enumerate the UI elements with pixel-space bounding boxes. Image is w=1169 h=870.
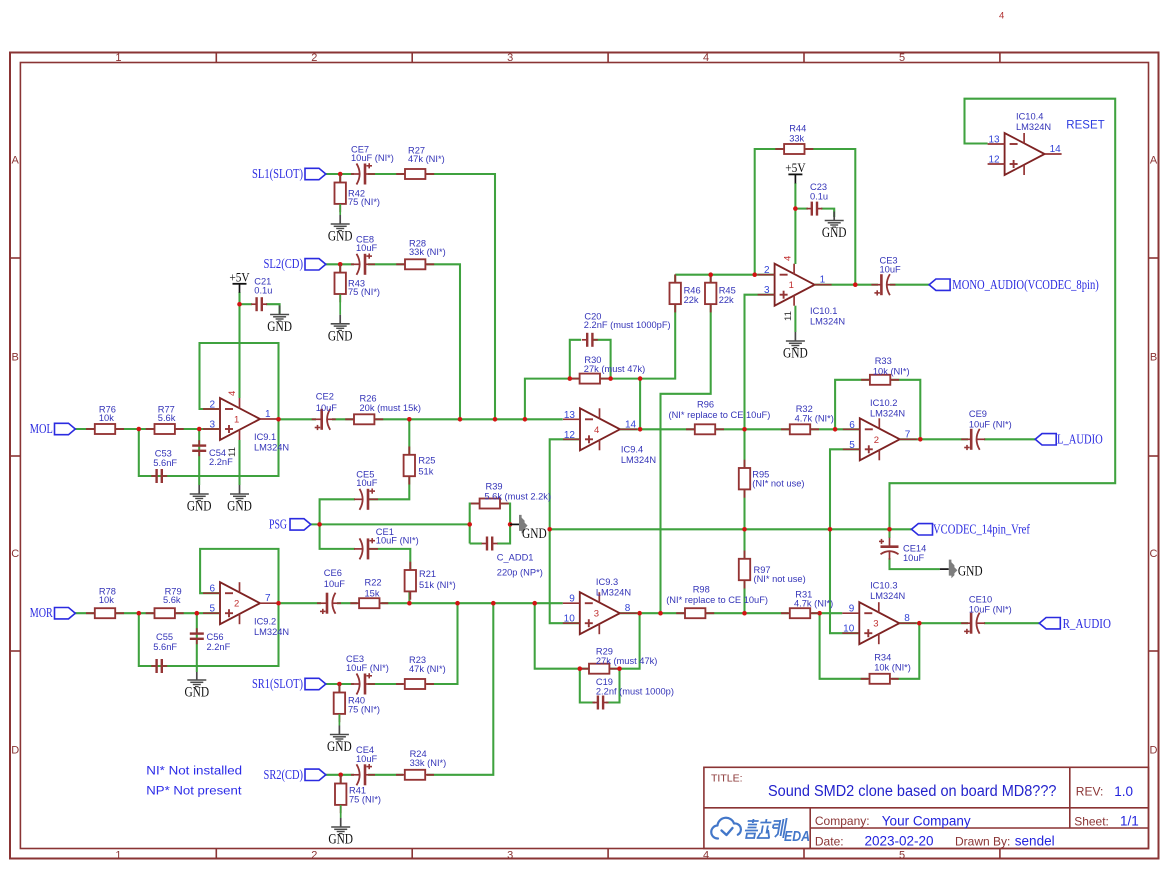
wire R39 C_ADD1 loop [470,504,479,544]
wire R46 branch [674,275,676,283]
resistor R24 [396,774,405,776]
svg-text:3: 3 [594,609,599,620]
wire L_AUDIO row [900,438,968,440]
svg-text:1: 1 [265,409,271,420]
net flag R_AUDIO [1039,618,1060,629]
svg-text:1: 1 [115,52,121,64]
wire MOL input [75,428,94,430]
wire CE14 branch [888,529,890,538]
svg-text:10uF (NI*): 10uF (NI*) [346,663,389,673]
junction SL2 tap [458,417,463,422]
capacitor C55 [151,665,156,667]
svg-text:R21: R21 [419,569,436,579]
ground below R42 [339,204,341,215]
svg-text:9: 9 [849,604,855,615]
svg-text:+5V: +5V [229,269,250,284]
capacitor CE5 [360,489,363,510]
svg-text:11: 11 [783,311,794,321]
svg-text:REV:: REV: [1076,785,1104,799]
ground IC10.1 pin11 [794,332,796,341]
svg-text:C55: C55 [156,632,173,642]
junction IC9.4 loop tap [523,417,528,422]
net flag VCODEC_14pin_Vref [912,524,933,535]
junction R31 right [817,611,822,616]
svg-text:5.6k: 5.6k [158,413,176,423]
svg-text:22k: 22k [684,295,699,305]
resistor R39 [471,503,480,505]
svg-text:1: 1 [115,849,121,861]
svg-text:22k: 22k [719,295,734,305]
svg-text:LM324N: LM324N [870,409,905,419]
svg-text:(NI* replace to CE 10uF): (NI* replace to CE 10uF) [666,595,768,605]
wire R96 R32 row [716,428,790,430]
junction IC10.2 output [918,437,923,442]
wire CE5 row [320,499,355,549]
svg-text:CE14: CE14 [903,543,926,553]
svg-text:2: 2 [234,599,239,610]
svg-text:MOL: MOL [30,421,53,436]
junction R96 R95 tap [742,427,747,432]
svg-text:33k: 33k [789,133,804,143]
svg-text:10uF: 10uF [903,553,925,563]
svg-text:GND: GND [184,685,209,701]
resistor R22 [350,602,359,604]
wire C23 branch [795,208,808,210]
resistor R44 [775,148,784,150]
svg-text:4: 4 [703,849,709,861]
wire IC9.4 output [620,428,695,430]
junction R30 output tap [638,376,643,381]
resistor R46 [674,274,676,282]
wire R_AUDIO row [899,622,968,624]
junction R30 right [608,376,613,381]
wire SL2 net [326,263,355,265]
junction R45 branch tap [658,611,663,616]
junction R30 left [568,376,573,381]
wire IC10.1 pin11 ground [794,306,796,332]
resistor R33 [861,379,870,381]
junction +5V C23 [793,206,798,211]
svg-text:12: 12 [988,155,1000,166]
wire C21 branch [240,303,253,305]
wire IC9.2 feedback [200,549,278,603]
svg-text:5: 5 [899,849,905,861]
svg-text:R33: R33 [875,356,892,366]
capacitor C54 [198,440,200,445]
wire C53 feedback loop [139,419,279,476]
svg-text:LM324N: LM324N [254,443,289,453]
svg-text:10uF (NI*): 10uF (NI*) [969,420,1012,430]
wire RESET net loop [890,99,1116,530]
svg-text:Sheet:: Sheet: [1074,814,1109,828]
svg-text:7: 7 [905,429,911,440]
svg-text:R96: R96 [697,400,714,410]
svg-text:C23: C23 [810,182,827,192]
wire R41 to ground [340,775,342,785]
svg-text:IC10.2: IC10.2 [870,398,897,408]
junction R45 top [708,272,713,277]
svg-text:1.0: 1.0 [1114,784,1133,799]
wire IC10.1 pin3 column [745,295,775,469]
svg-text:2: 2 [764,265,770,276]
svg-text:10uF: 10uF [356,478,378,488]
wire R40 to ground [338,684,340,694]
svg-text:VCODEC_14pin_Vref: VCODEC_14pin_Vref [933,521,1030,536]
wire SR1 net [326,683,355,685]
svg-text:LM324N: LM324N [870,591,905,601]
resistor R40 [338,684,340,692]
svg-text:5.6k: 5.6k [163,595,181,605]
wire C55 feedback loop [139,603,279,666]
svg-text:2: 2 [874,435,879,446]
wire IC9.4 loop to R30 row [525,379,579,420]
svg-text:A: A [1150,155,1158,167]
wire IC9.1 pin11 to ground [238,440,240,485]
wire C20 branch [570,340,581,379]
svg-text:8: 8 [625,603,631,614]
svg-text:R_AUDIO: R_AUDIO [1063,616,1112,631]
net flag L_AUDIO [1035,434,1056,445]
svg-text:10uF (NI*): 10uF (NI*) [969,605,1012,615]
wire IC9.1 output row [279,418,317,420]
junction IC10.3 output [917,621,922,626]
junction SR1 [337,682,342,687]
svg-text:2.2nF (must 1000pF): 2.2nF (must 1000pF) [584,320,671,330]
junction IC9.1 output [276,417,281,422]
svg-text:TITLE:: TITLE: [711,773,743,785]
junction IC9.4 output [638,427,643,432]
junction PSG [317,522,322,527]
wire Vref row [550,528,912,530]
svg-text:LM324N: LM324N [621,455,656,465]
svg-text:GND: GND [327,739,352,755]
svg-text:R46: R46 [684,286,701,296]
net flag MONO_AUDIO [929,279,950,290]
svg-text:3: 3 [764,285,770,296]
svg-text:MOR: MOR [30,605,53,620]
svg-text:RESET: RESET [1066,119,1104,131]
junction R29 left [578,666,583,671]
svg-text:5.6nF: 5.6nF [153,458,177,468]
svg-text:NI* Not installed: NI* Not installed [146,766,242,778]
svg-text:75 (NI*): 75 (NI*) [349,794,381,804]
svg-text:+5V: +5V [785,160,806,175]
svg-text:MONO_AUDIO(VCODEC_8pin): MONO_AUDIO(VCODEC_8pin) [952,277,1099,292]
wire R43 to ground [339,264,341,274]
resistor R41 [340,775,342,783]
ground below C23 [833,209,835,212]
junction Vref head [547,527,552,532]
svg-text:D: D [11,745,19,757]
svg-text:GND: GND [822,225,847,241]
capacitor CE6 [332,593,335,614]
capacitor CE14 [881,545,899,548]
svg-text:5: 5 [209,604,215,615]
svg-text:1: 1 [234,415,239,426]
wire C56 to ground [196,613,198,672]
capacitor C20 [582,339,587,341]
svg-text:220p (NP*): 220p (NP*) [497,568,543,578]
op-amp IC9.4 [580,408,620,450]
svg-text:A: A [12,155,20,167]
ground below C54 [198,485,200,494]
svg-text:R25: R25 [418,456,435,466]
svg-text:10uF: 10uF [880,265,902,275]
svg-text:GND: GND [328,328,353,344]
svg-text:13: 13 [564,410,576,421]
svg-text:GND: GND [267,319,292,335]
svg-text:10uF: 10uF [356,243,378,253]
ground below C56 [196,672,198,680]
resistor R42 [339,174,341,182]
svg-text:IC9.2: IC9.2 [254,617,276,627]
svg-text:R32: R32 [796,404,813,414]
svg-text:10uF (NI*): 10uF (NI*) [351,153,394,163]
wire SL1 net [326,173,355,175]
svg-text:Drawn By:: Drawn By: [955,834,1010,848]
junction node B1 [197,427,202,432]
svg-text:Sound SMD2 clone based on boar: Sound SMD2 clone based on board MD8??? [768,783,1057,800]
resistor R78 [86,612,95,614]
svg-text:4.7k (NI*): 4.7k (NI*) [794,598,833,608]
wire IC9.3 pin10 Vref branch [550,439,581,623]
junction SR2 tap [491,601,496,606]
svg-text:R26: R26 [360,394,377,404]
capacitor CE3 input [357,674,360,695]
wire R42 to ground [339,174,341,184]
junction +5V C21 [237,302,242,307]
capacitor C56 [196,628,198,633]
junction R25 tap [407,417,412,422]
op-amp IC10.3 [859,602,899,644]
resistor R95 [744,460,746,468]
svg-text:75 (NI*): 75 (NI*) [348,704,380,714]
svg-text:5.6nF: 5.6nF [153,642,177,652]
svg-text:IC10.3: IC10.3 [870,581,897,591]
svg-text:4: 4 [999,11,1004,22]
junction SR1 tap [455,601,460,606]
svg-text:R34: R34 [874,652,891,662]
capacitor CE3 output [887,274,890,295]
wire IC9.3 feedback R29 [535,603,589,669]
resistor R28 [396,263,405,265]
wire R33 feedback [835,380,869,429]
svg-text:10uF: 10uF [324,579,346,589]
svg-text:2023-02-20: 2023-02-20 [865,834,934,849]
svg-text:LM324N: LM324N [810,317,845,327]
svg-text:(NI* not use): (NI* not use) [754,574,806,584]
svg-text:27k (must 47k): 27k (must 47k) [584,364,645,374]
svg-text:47k (NI*): 47k (NI*) [409,664,446,674]
svg-text:(NI* replace to CE 10uF): (NI* replace to CE 10uF) [669,410,771,420]
svg-text:27k (must 47k): 27k (must 47k) [596,656,657,666]
svg-text:4: 4 [594,425,599,436]
wire IC9.1 feedback [200,343,279,419]
svg-text:33k (NI*): 33k (NI*) [409,247,446,257]
junction Vref R95 [742,527,747,532]
svg-text:8: 8 [904,613,910,624]
junction Vref pin5 [828,527,833,532]
capacitor C19 [593,702,598,704]
resistor R29 [580,668,589,670]
svg-text:10: 10 [843,624,855,635]
junction R21 tap [407,601,412,606]
svg-text:12: 12 [564,430,576,441]
svg-text:3: 3 [209,420,215,431]
resistor R43 [339,264,341,272]
svg-text:GND: GND [328,832,353,848]
svg-text:4.7k (NI*): 4.7k (NI*) [795,414,834,424]
svg-text:4: 4 [703,52,709,64]
svg-text:IC10.4: IC10.4 [1016,112,1043,122]
svg-text:10k (NI*): 10k (NI*) [874,662,911,672]
junction GND tap [508,522,513,527]
junction R39 left [467,522,472,527]
svg-text:9: 9 [569,594,575,605]
wire IC9.3 output row [620,612,685,614]
svg-text:14: 14 [1050,144,1062,155]
resistor R32 [781,428,790,430]
ground below R43 [339,294,341,314]
capacitor CE2 [327,409,330,430]
svg-text:(NI* not use): (NI* not use) [752,479,804,489]
svg-text:14: 14 [625,419,637,430]
svg-text:0.1u: 0.1u [254,285,272,295]
svg-text:5: 5 [849,440,855,451]
ground gray at C_ADD1 [510,523,519,525]
resistor R79 [146,612,155,614]
junction SR2 [338,773,343,778]
capacitor C21 [251,303,256,305]
capacitor C53 [151,475,156,477]
svg-text:2: 2 [311,849,317,861]
ground below C21 [279,304,281,305]
svg-text:PSG: PSG [269,516,287,531]
resistor R25 [408,447,410,455]
svg-text:3: 3 [873,619,878,630]
ground below R40 [338,714,340,726]
ground gray at CE14 [940,568,949,570]
resistor R98 [676,612,685,614]
svg-text:CE6: CE6 [324,568,342,578]
svg-text:GND: GND [783,346,808,362]
svg-text:2: 2 [311,52,317,64]
capacitor CE4 [357,764,360,785]
svg-text:47k (NI*): 47k (NI*) [408,154,445,164]
svg-text:10uF (NI*): 10uF (NI*) [376,536,419,546]
svg-text:6: 6 [849,420,855,431]
svg-text:C: C [11,548,19,560]
svg-text:CE9: CE9 [969,409,987,419]
junction IC9.3 output [637,611,642,616]
svg-text:LM324N: LM324N [596,588,631,598]
junction IC9.2 output [276,601,281,606]
resistor R34 [861,678,870,680]
junction node A2 [137,611,142,616]
resistor R76 [86,428,95,430]
wire C54 to ground [198,429,200,485]
svg-text:1: 1 [820,275,826,286]
wire SR2 net [326,774,355,776]
wire PSG row [311,523,470,525]
op-amp IC9.2 [220,582,260,624]
svg-text:C53: C53 [155,449,172,459]
capacitor CE8 [357,254,360,275]
resistor R77 [146,428,155,430]
svg-text:10k: 10k [99,595,114,605]
resistor R23 [396,683,405,685]
junction IC10.1 output [853,282,858,287]
resistor R45 [710,274,712,282]
wire IC9.2 output row [279,602,322,604]
svg-text:4: 4 [227,391,238,396]
op-amp IC10.1 [775,264,815,306]
svg-text:7: 7 [265,593,271,604]
resistor R97 [744,551,746,559]
wire +5V to IC10.1 [794,183,796,264]
svg-text:10: 10 [564,614,576,625]
op-amp IC9.1 [220,398,260,440]
svg-text:IC9.3: IC9.3 [596,577,618,587]
svg-text:R29: R29 [596,647,613,657]
junction node B2 [195,611,200,616]
capacitor CE10 [976,613,979,634]
svg-text:11: 11 [227,447,238,457]
svg-text:D: D [1150,745,1158,757]
svg-text:2.2nF: 2.2nF [209,457,233,467]
resistor R27 [396,173,405,175]
junction R29 tap [532,601,537,606]
svg-text:0.1u: 0.1u [810,191,828,201]
capacitor C23 [806,208,811,210]
svg-text:IC9.1: IC9.1 [254,432,276,442]
svg-text:SR1(SLOT): SR1(SLOT) [252,676,303,691]
svg-text:5: 5 [899,52,905,64]
svg-text:R22: R22 [365,578,382,588]
svg-text:EDA: EDA [784,828,810,845]
junction SL1 [338,172,343,177]
JLC EDA logo [711,818,741,839]
svg-text:B: B [1150,352,1157,364]
svg-text:75 (NI*): 75 (NI*) [348,197,380,207]
svg-text:Company:: Company: [815,814,870,828]
svg-text:GND: GND [227,499,252,515]
svg-text:5.6k (must 2.2k): 5.6k (must 2.2k) [484,492,551,502]
svg-text:C56: C56 [207,632,224,642]
wire MOR input [75,612,94,614]
svg-text:Date:: Date: [815,834,844,848]
capacitor CE1 [360,538,363,559]
svg-text:33k (NI*): 33k (NI*) [410,758,447,768]
svg-text:GND: GND [328,229,353,245]
junction node A1 [137,427,142,432]
svg-text:20k (must 15k): 20k (must 15k) [360,403,421,413]
wire MONO output row [815,284,878,286]
svg-text:CE2: CE2 [316,391,334,401]
svg-text:B: B [12,352,19,364]
svg-text:C19: C19 [596,677,613,687]
ground IC9.1 pin11 [239,485,241,494]
wire +5V to IC9.1 pin4 [238,292,240,398]
svg-text:LM324N: LM324N [1016,122,1051,132]
wire R45 branch [710,275,712,283]
junction R29 right [617,666,622,671]
svg-text:SL1(SLOT): SL1(SLOT) [252,166,303,181]
resistor R21 [409,562,411,570]
junction R32 right [833,427,838,432]
resistor R30 [571,378,580,380]
junction Vref CE14 [887,527,892,532]
